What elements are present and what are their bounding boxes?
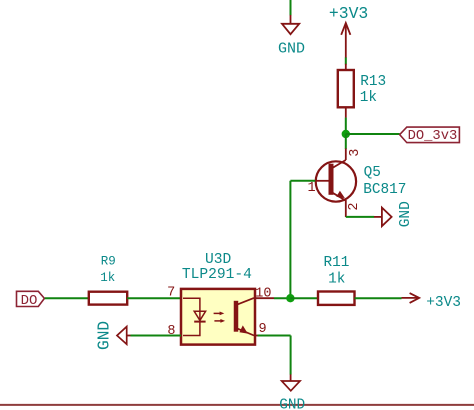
svg-text:R9: R9 (101, 255, 116, 269)
svg-text:1k: 1k (100, 271, 115, 285)
power +3V3 (top) (329, 4, 368, 58)
svg-text:GND: GND (95, 321, 113, 350)
junction (342, 130, 350, 138)
wire (258, 335, 291, 337)
svg-text:DO_3v3: DO_3v3 (408, 129, 458, 144)
resistor R13 (338, 64, 386, 118)
wire (131, 335, 182, 337)
svg-text:U3D: U3D (205, 252, 232, 268)
wire (345, 134, 347, 149)
ground (left, pin 8) (95, 321, 130, 350)
wire (45, 297, 89, 299)
wire (355, 297, 402, 299)
junction (286, 294, 294, 302)
svg-text:R13: R13 (360, 74, 386, 90)
power +3V3 (right) (402, 293, 462, 311)
transistor Q5 (307, 149, 406, 218)
wire (290, 180, 315, 182)
wire (346, 216, 374, 218)
resistor R9 (89, 255, 127, 305)
svg-text:Q5: Q5 (364, 165, 381, 181)
svg-text:BC817: BC817 (363, 182, 406, 198)
wire (274, 297, 290, 299)
wire (345, 58, 347, 65)
global label DO_3v3 (400, 127, 460, 144)
ground (top) (278, 15, 305, 57)
svg-text:3: 3 (348, 149, 363, 157)
wire (289, 181, 291, 298)
svg-text:GND: GND (398, 201, 414, 227)
svg-text:+3V3: +3V3 (329, 4, 368, 23)
svg-text:8: 8 (167, 324, 175, 339)
svg-text:TLP291-4: TLP291-4 (182, 267, 252, 283)
wire (290, 336, 292, 375)
svg-text:DO: DO (21, 293, 38, 309)
svg-text:+3V3: +3V3 (426, 295, 461, 311)
global label DO (17, 291, 45, 309)
svg-text:R11: R11 (324, 255, 350, 271)
resistor R11 (318, 255, 355, 305)
svg-text:GND: GND (278, 40, 305, 57)
svg-text:2: 2 (347, 202, 362, 210)
svg-text:1k: 1k (328, 271, 345, 287)
svg-text:GND: GND (279, 398, 305, 410)
wire (127, 297, 181, 299)
wire (346, 133, 400, 135)
wire (345, 118, 347, 134)
optocoupler U3D (167, 252, 274, 345)
svg-text:1k: 1k (360, 90, 377, 106)
svg-text:10: 10 (255, 287, 271, 302)
svg-text:1: 1 (307, 181, 315, 196)
ground (right of Q5) (374, 201, 414, 227)
wire (290, 297, 318, 299)
wire (290, 0, 292, 16)
ground (bottom) (279, 374, 305, 410)
svg-text:7: 7 (167, 285, 175, 300)
